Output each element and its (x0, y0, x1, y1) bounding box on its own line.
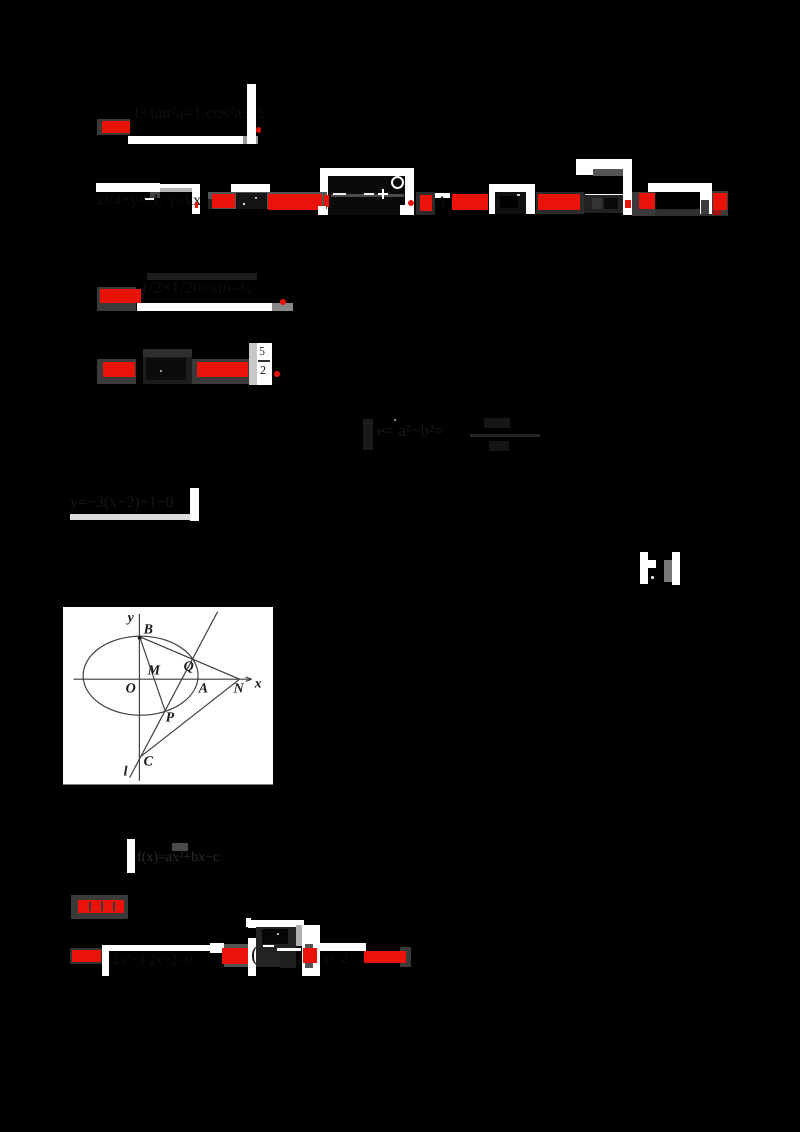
svg-text:l: l (124, 765, 128, 780)
white band b17 (648, 183, 712, 192)
dark paren j5b (251, 941, 258, 967)
svg-text:y: y (126, 611, 135, 626)
white block b17b (700, 184, 712, 213)
white speckle on blob 2 (255, 197, 257, 199)
box2 dark glyph (500, 196, 518, 208)
ellipse (83, 636, 198, 715)
light column d4 (249, 343, 257, 385)
fraction box inner dark (256, 927, 296, 967)
box1 white plus (378, 193, 389, 196)
faint fraction bar row E (470, 434, 540, 437)
white tick j0 (246, 918, 251, 927)
gray band row C (272, 303, 293, 311)
red chars b12 (452, 194, 488, 210)
box1 gray fraction bar (331, 194, 404, 196)
dark A b11 (436, 194, 446, 212)
white bar g1 (640, 552, 648, 584)
box1 white dashes (333, 193, 346, 195)
red bit over box1 left edge (324, 195, 329, 207)
fraction box light column (296, 925, 302, 946)
box2 white left bar (489, 184, 496, 214)
y-axis (139, 614, 141, 781)
dark glyphs j8 (322, 951, 348, 968)
dark formula row C (140, 278, 252, 298)
white band j3b thicker (210, 943, 224, 953)
white underline band row A (128, 136, 243, 144)
dark block d2 (143, 357, 192, 384)
line l (130, 612, 218, 778)
gray column g3 (664, 560, 672, 582)
box3 white right bar (623, 159, 632, 215)
dark formula row F (70, 494, 174, 512)
red label row A (102, 121, 130, 133)
gray bg j7 (305, 944, 313, 968)
red chars d1 (103, 362, 135, 377)
glyph gap row I 3 (113, 902, 115, 911)
svg-text:O: O (126, 682, 136, 697)
svg-text:Q: Q (184, 660, 194, 675)
fraction lower dark (280, 951, 296, 968)
box1 white bottom-left cell (318, 206, 326, 215)
box2 white top band (489, 184, 535, 192)
gray bg row C (97, 287, 136, 311)
svg-text:x: x (254, 677, 262, 692)
white bar j2 (102, 945, 109, 976)
glyph gap row I 2 (101, 901, 103, 911)
white dot in sqrt3 (277, 933, 279, 935)
red period d5 (274, 371, 280, 377)
dark glyphs on d2 (146, 358, 186, 380)
box3 white fraction line (585, 194, 624, 196)
box2 white right bar (526, 184, 535, 214)
faint formula row E (377, 421, 444, 441)
red chars j9 (364, 951, 406, 963)
box1 white ring (391, 176, 404, 189)
sqrt3 glyph blob (262, 929, 288, 944)
white notch g2 (648, 560, 656, 568)
light band under b1b (160, 188, 192, 192)
box1 white frame (320, 168, 414, 216)
red period row A (256, 127, 261, 133)
faint band top row C (147, 273, 257, 280)
slab left dark edge (208, 199, 212, 209)
red chars b7 (268, 194, 322, 210)
red char j7 (303, 948, 317, 963)
svg-text:C: C (144, 755, 154, 770)
white band j3 (109, 945, 210, 952)
box3 white top band (576, 159, 632, 175)
gray bg j1 (70, 948, 103, 964)
white speckle on blob (243, 203, 245, 205)
box2 white fleck (517, 194, 520, 196)
segment NC (141, 679, 240, 757)
gray bit below band left (150, 192, 160, 198)
fraction white bar (277, 948, 301, 951)
red comma b3 on white bar (195, 202, 199, 208)
light band row F (70, 514, 190, 521)
white band row C (137, 303, 272, 311)
dark formula j (112, 953, 192, 969)
x-axis (74, 678, 252, 680)
gray bg behind red label (97, 119, 130, 135)
red chars row I (78, 900, 124, 913)
labels (124, 611, 262, 780)
red period after box1 (408, 200, 414, 206)
segment BP (140, 637, 166, 711)
gray bg d1 (97, 359, 136, 384)
white bar row H (127, 839, 135, 873)
gray bg row I (71, 895, 128, 919)
x-axis arrowhead (246, 677, 252, 681)
gray band continuation row A (243, 136, 258, 144)
box3 lower gray area (584, 195, 623, 213)
white bar j5 (248, 938, 256, 976)
box3 faint digits (592, 198, 602, 209)
box1 white bottom-right cell (400, 205, 414, 216)
red chars row C (100, 289, 141, 303)
gray bg d3 (192, 359, 250, 384)
figure white background (63, 607, 273, 785)
svg-text:M: M (147, 664, 161, 679)
red period row C (280, 299, 286, 305)
faint glyph cluster row E (363, 419, 373, 450)
glyph gap row I (89, 902, 91, 911)
white vertical bar row A (247, 84, 256, 144)
segment BN (140, 637, 240, 680)
svg-text:B: B (143, 623, 153, 638)
white bar g4 (672, 552, 680, 585)
gray bg j4 (224, 944, 248, 967)
white cap band b1 (96, 183, 161, 192)
gray smudge row H (172, 843, 188, 851)
white band j8 (320, 943, 366, 951)
red char b18 (713, 193, 727, 210)
white area j7 (302, 925, 321, 976)
box2 inner dark (495, 192, 526, 214)
fraction box top white (248, 920, 304, 928)
white thin band b1b (160, 184, 192, 188)
gray bg b10 (416, 192, 435, 215)
red chars j4 (222, 948, 250, 964)
white dash inside b2 (145, 198, 154, 200)
white bar b1c (192, 184, 200, 215)
dark block d2 top (143, 349, 192, 357)
red bit under b18 (713, 210, 721, 215)
white column d4 (257, 343, 272, 385)
gray strip row B tail (632, 209, 728, 216)
dark glyph blob on slab (236, 193, 267, 209)
dark formula b2 (96, 192, 201, 210)
gray slab row B mid (208, 192, 327, 210)
gray bg b18 (712, 191, 728, 215)
red chars b14 (536, 192, 584, 214)
white patch b11 (435, 193, 450, 199)
gray bg b16 (632, 192, 655, 216)
red char b10 (420, 195, 432, 211)
red char b16 (639, 193, 655, 209)
box3 dark digits (604, 198, 618, 209)
faint lower marks row E (489, 441, 509, 451)
point B dot (138, 636, 142, 640)
white cap band b5 (231, 184, 270, 191)
white speckle d2 (160, 370, 162, 372)
box3 gray band (593, 169, 623, 176)
svg-text:P: P (166, 711, 175, 726)
fraction glyphs d4 (259, 344, 265, 359)
gray formula row H (137, 850, 219, 866)
svg-text:A: A (198, 682, 208, 697)
faint upper marks row E (484, 418, 510, 428)
box1 inner black (328, 176, 406, 215)
box3 red comma on white bar (625, 200, 631, 208)
white bar row F (190, 488, 199, 521)
dark formula row A (invisible on black) (132, 103, 264, 123)
red chars b4 (212, 194, 235, 208)
gray bg j9 (400, 947, 411, 967)
red chars j1 (72, 950, 101, 962)
red chars d3 (197, 362, 248, 377)
dark glyph on white block (701, 200, 710, 214)
svg-text:N: N (233, 682, 245, 697)
white speck row E (394, 419, 396, 421)
fraction white dash left (263, 945, 274, 947)
white dot g5 (651, 576, 654, 579)
